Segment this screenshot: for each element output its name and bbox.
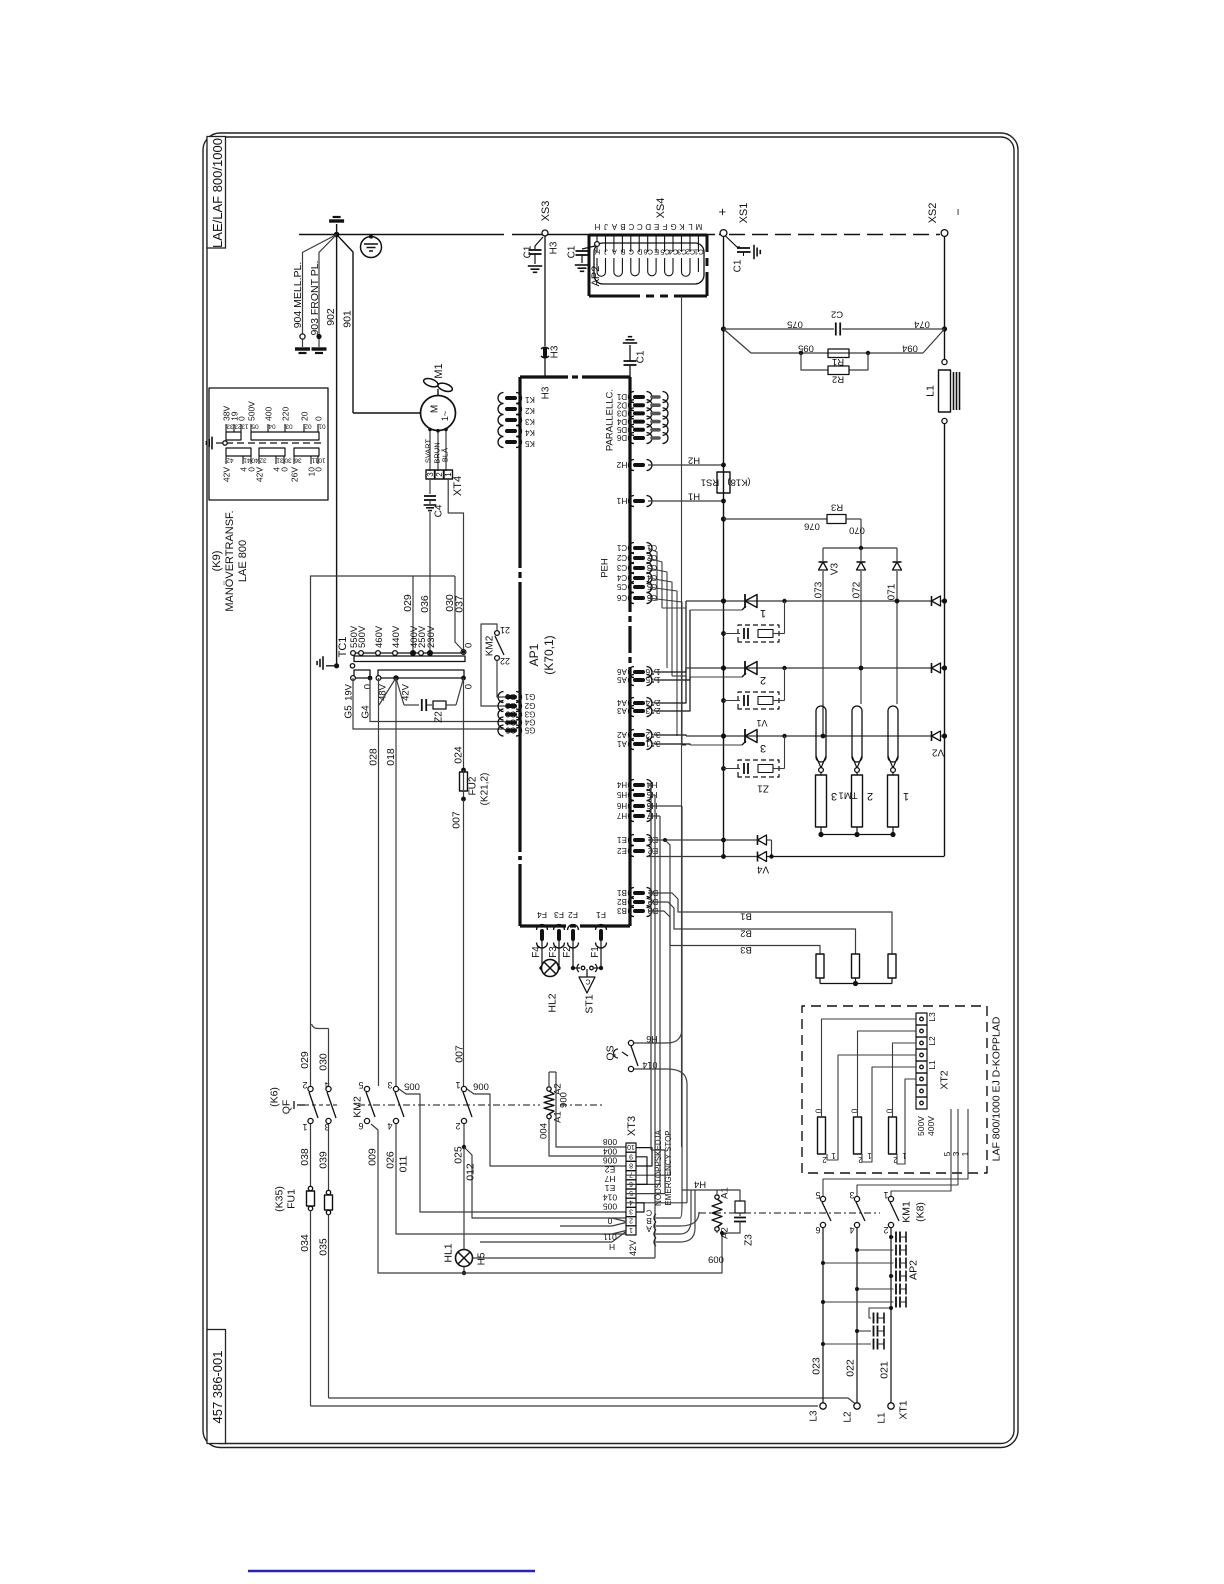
svg-text:02: 02 — [304, 423, 312, 430]
svg-text:HL2: HL2 — [547, 993, 559, 1012]
svg-text:904 MELL.PL.: 904 MELL.PL. — [292, 262, 304, 329]
svg-text:E: E — [654, 222, 659, 231]
svg-text:007: 007 — [451, 811, 463, 829]
svg-text:H7: H7 — [616, 811, 627, 820]
svg-text:C3: C3 — [646, 563, 657, 572]
fuse FU1 (K35) — [308, 1186, 312, 1190]
wire 035 — [328, 1214, 330, 1398]
connector H3 arcs — [543, 349, 547, 357]
motor leads SVART BRUN BLA — [429, 428, 431, 471]
svg-text:440V: 440V — [391, 625, 402, 648]
snubber row C2/075/074 — [721, 326, 726, 331]
svg-text:H7: H7 — [604, 1174, 615, 1184]
svg-text:C1: C1 — [733, 259, 744, 272]
svg-text:Z3: Z3 — [744, 1234, 755, 1246]
thyristor V1-3 — [744, 729, 746, 743]
capacitor bank lower three — [869, 1308, 891, 1318]
svg-text:26V: 26V — [290, 467, 300, 482]
svg-text:D4: D4 — [616, 417, 627, 426]
svg-text:(K6): (K6) — [269, 1087, 281, 1107]
svg-text:2: 2 — [867, 790, 873, 802]
wire 004 from A1 — [549, 1119, 626, 1156]
wire 026/011 from KM2 pole 3 — [396, 1124, 626, 1234]
svg-text:8: 8 — [629, 1162, 633, 1169]
svg-text:(K8): (K8) — [915, 1202, 927, 1222]
svg-text:0: 0 — [280, 467, 290, 472]
svg-text:004: 004 — [538, 1123, 549, 1139]
wires 5 3 1 from XT2 — [891, 1109, 951, 1196]
TC1 tap 500V — [359, 651, 364, 656]
svg-text:095: 095 — [798, 343, 814, 354]
svg-text:XT2: XT2 — [939, 1070, 951, 1089]
svg-text:902: 902 — [325, 308, 337, 326]
svg-text:5: 5 — [629, 1189, 633, 1196]
wire 030 branch hook — [312, 1024, 329, 1029]
svg-text:074: 074 — [914, 319, 930, 330]
pin D4 — [635, 420, 643, 424]
svg-text:42V: 42V — [222, 467, 232, 482]
svg-text:KM2: KM2 — [352, 1096, 364, 1118]
svg-text:1: 1 — [302, 1122, 307, 1132]
svg-text:H2: H2 — [688, 455, 700, 466]
svg-text:0: 0 — [362, 684, 373, 689]
feed wire to XT1 L2 — [329, 1398, 858, 1405]
svg-text:G5: G5 — [524, 726, 535, 735]
drawing frame inner border — [207, 137, 1014, 1444]
svg-text:009: 009 — [708, 1254, 724, 1265]
svg-text:C6: C6 — [643, 247, 653, 256]
svg-text:005: 005 — [404, 1081, 420, 1092]
svg-text:LAF 800/1000 EJ D-KOPPLAD: LAF 800/1000 EJ D-KOPPLAD — [991, 1016, 1003, 1161]
svg-text:42V: 42V — [255, 467, 265, 482]
svg-text:039: 039 — [318, 1151, 330, 1169]
thyristor V1-2 — [744, 661, 746, 675]
svg-text:071: 071 — [887, 583, 898, 600]
svg-text:1: 1 — [831, 1151, 836, 1160]
svg-text:C3: C3 — [616, 563, 627, 572]
chevron connectors A B C — [654, 1214, 656, 1222]
TC1 secondary winding small — [354, 670, 370, 678]
TC1 tap 250V — [419, 651, 424, 656]
breaker QF (K6) — [308, 1086, 313, 1091]
svg-text:008: 008 — [603, 1137, 617, 1147]
svg-text:M1: M1 — [433, 363, 445, 378]
svg-text:V2: V2 — [931, 747, 944, 758]
svg-text:H4: H4 — [694, 1179, 706, 1190]
svg-text:2: 2 — [883, 1225, 888, 1235]
XT2 windings — [818, 1117, 826, 1154]
svg-text:G1: G1 — [505, 692, 516, 701]
TM1 secondary windings — [816, 775, 827, 827]
pin C1 — [635, 546, 643, 550]
TM1 primary star — [820, 983, 892, 985]
svg-text:0: 0 — [314, 416, 324, 421]
svg-text:A: A — [611, 222, 617, 231]
wire M1 to 901 — [353, 412, 421, 414]
svg-text:Z2: Z2 — [434, 711, 445, 723]
pin H2 — [635, 463, 643, 467]
pin A5 — [635, 678, 643, 682]
svg-text:030: 030 — [318, 1053, 330, 1071]
svg-text:L3: L3 — [927, 1012, 937, 1022]
thyristor rail 3 — [686, 735, 945, 737]
svg-text:B2: B2 — [617, 897, 627, 906]
wire 008 row — [556, 1072, 626, 1147]
svg-text:C2: C2 — [686, 247, 696, 256]
wire 034 — [310, 1210, 312, 1406]
svg-text:31: 31 — [276, 457, 284, 464]
svg-text:1: 1 — [867, 1151, 872, 1160]
svg-text:C1: C1 — [567, 245, 578, 258]
negative bus upper — [944, 236, 946, 359]
svg-text:028: 028 — [368, 748, 380, 766]
svg-text:H3: H3 — [549, 241, 560, 254]
svg-text:20: 20 — [300, 411, 310, 421]
earth bar at node 901 — [336, 224, 338, 235]
K9 secondary winding C — [294, 448, 319, 456]
svg-text:05: 05 — [251, 423, 259, 430]
wire 028 from 48V — [378, 678, 380, 1086]
svg-text:XT3: XT3 — [626, 1116, 638, 1136]
svg-text:J: J — [604, 222, 608, 231]
B3 wire — [648, 911, 820, 954]
H pins wires down to rows — [648, 805, 682, 807]
svg-text:500V: 500V — [247, 401, 257, 421]
phase wires 073 072 071 — [822, 571, 824, 736]
wire 007 — [463, 800, 465, 1086]
capacitor C1 at AP1 top — [629, 366, 631, 377]
svg-text:B1: B1 — [617, 888, 627, 897]
svg-text:+: + — [715, 208, 730, 216]
svg-text:ST1: ST1 — [584, 994, 596, 1013]
svg-text:30: 30 — [284, 457, 292, 464]
terminal strip XT3 — [626, 1143, 636, 1152]
svg-text:SVART: SVART — [424, 438, 433, 463]
pin D1 — [635, 395, 643, 399]
blue footer line — [248, 1570, 535, 1573]
svg-text:42: 42 — [226, 457, 234, 464]
svg-text:F1: F1 — [596, 910, 606, 920]
svg-text:BLÅ: BLÅ — [441, 448, 450, 462]
svg-text:C6: C6 — [616, 593, 627, 602]
svg-text:XT1: XT1 — [898, 1400, 910, 1419]
svg-text:220: 220 — [281, 407, 291, 421]
K9 primary winding 1 — [226, 432, 241, 440]
svg-text:3: 3 — [426, 472, 435, 477]
svg-text:H: H — [595, 247, 600, 256]
svg-text:C3: C3 — [677, 247, 687, 256]
capacitor C1 at XS1 — [726, 236, 741, 247]
svg-text:M: M — [695, 222, 702, 231]
svg-text:094: 094 — [902, 343, 918, 354]
svg-text:F2: F2 — [568, 910, 578, 920]
svg-text:XS3: XS3 — [540, 201, 552, 222]
svg-text:J: J — [604, 247, 608, 256]
svg-text:C1: C1 — [616, 543, 627, 552]
contactor KM2 pole 1-2 — [461, 1086, 466, 1091]
pin H5 — [635, 793, 643, 797]
svg-text:C5: C5 — [660, 247, 670, 256]
svg-text:C2: C2 — [616, 553, 627, 562]
svg-text:XS2: XS2 — [927, 203, 939, 224]
svg-text:V4: V4 — [756, 864, 769, 875]
TC1 tap 0 primary — [461, 650, 466, 655]
rows E2 H7 E1 lines — [626, 1174, 655, 1176]
thyristor V1-1 — [744, 594, 746, 608]
svg-text:006: 006 — [603, 1156, 617, 1166]
capacitor C1 at XS3 — [535, 237, 543, 249]
TC1 core dash and ground — [334, 663, 339, 668]
svg-text:073: 073 — [814, 581, 825, 598]
TM1 connection tubes — [816, 706, 826, 762]
pin H3 into AP1 top — [544, 237, 546, 347]
wire H4 row — [682, 1189, 717, 1191]
contactor KM1 coil zigzag — [712, 1199, 722, 1227]
svg-text:0: 0 — [463, 684, 474, 689]
svg-text:021: 021 — [879, 1361, 891, 1379]
pin H7 — [635, 814, 643, 818]
svg-text:006: 006 — [473, 1081, 489, 1092]
pin C6 — [635, 596, 643, 600]
motor M1 circle — [421, 396, 456, 431]
svg-text:04: 04 — [268, 423, 276, 430]
pin D2 — [635, 403, 643, 407]
svg-text:G5: G5 — [505, 726, 516, 735]
rows 012 0 011 H into XT3 — [612, 1218, 626, 1222]
gate wire bundle from PEH — [648, 548, 657, 601]
wire 21 to G2 — [481, 624, 506, 706]
svg-text:36: 36 — [294, 457, 302, 464]
svg-text:E2: E2 — [605, 1165, 616, 1175]
svg-text:457 386-001: 457 386-001 — [210, 1350, 225, 1423]
svg-text:A5: A5 — [617, 675, 627, 684]
title box LAE/LAF 800/1000 — [207, 137, 226, 249]
feed wire to XT1 L3 — [311, 1405, 819, 1407]
gate wire — [690, 744, 742, 746]
pin H4 — [635, 783, 643, 787]
svg-text:F1: F1 — [590, 946, 601, 958]
terminal strip XT4 — [426, 470, 435, 479]
svg-text:H5: H5 — [616, 790, 627, 799]
capacitor bank AP2 — [891, 1236, 894, 1238]
svg-text:42V: 42V — [628, 1240, 638, 1256]
positive bus — [723, 236, 725, 856]
svg-text:(K21,2): (K21,2) — [480, 773, 491, 806]
pin A1 — [635, 742, 643, 746]
svg-text:F4: F4 — [537, 910, 547, 920]
svg-text:K1: K1 — [525, 395, 535, 404]
svg-text:40: 40 — [251, 457, 259, 464]
svg-text:011: 011 — [603, 1232, 617, 1242]
svg-text:TM1: TM1 — [839, 790, 858, 801]
TC1 tap 230V — [428, 651, 433, 656]
svg-text:11: 11 — [311, 457, 318, 464]
svg-text:C2: C2 — [831, 309, 843, 320]
contactor KM2 pole 3-4 — [393, 1086, 398, 1091]
B2 wire — [648, 902, 856, 954]
svg-text:FU2: FU2 — [468, 776, 479, 795]
wire 903 — [319, 235, 337, 335]
svg-text:32: 32 — [259, 457, 267, 464]
lamp HL2 — [541, 940, 543, 968]
svg-text:01: 01 — [318, 423, 326, 430]
svg-text:B1: B1 — [740, 911, 752, 922]
svg-text:K5: K5 — [525, 439, 535, 448]
svg-text:C: C — [628, 247, 634, 256]
svg-text:025: 025 — [453, 1146, 465, 1164]
svg-text:3: 3 — [387, 1080, 392, 1090]
svg-text:C4: C4 — [669, 247, 679, 256]
wire 036 motor feed — [429, 512, 431, 653]
svg-text:D2: D2 — [616, 400, 627, 409]
wire 005 jog from KM2 — [399, 1089, 626, 1212]
svg-text:4: 4 — [629, 1198, 633, 1205]
svg-text:G3: G3 — [505, 710, 516, 719]
014 wire from QS — [634, 1068, 668, 1070]
gate stubs — [662, 607, 686, 609]
svg-text:C: C — [628, 222, 634, 231]
diode V2-1 — [932, 596, 941, 606]
B1 wire — [648, 893, 892, 954]
svg-text:RS1: RS1 — [701, 477, 719, 488]
TM1 star join — [820, 827, 822, 833]
svg-text:1: 1 — [903, 790, 909, 802]
svg-text:0: 0 — [314, 467, 324, 472]
svg-text:F3: F3 — [548, 946, 559, 958]
svg-text:C: C — [585, 978, 590, 985]
manoeuvre transformer box (K9) — [209, 388, 328, 500]
svg-text:A: A — [646, 1224, 652, 1234]
svg-text:R2: R2 — [832, 374, 844, 385]
TC1 secondary taps — [351, 676, 356, 681]
right bundle verticals — [681, 806, 683, 1204]
XT3 jumper brackets — [636, 1148, 652, 1166]
svg-text:A3: A3 — [617, 706, 627, 715]
svg-text:F2: F2 — [562, 946, 573, 958]
svg-text:070: 070 — [849, 525, 865, 536]
svg-text:LAE/LAF 800/1000: LAE/LAF 800/1000 — [210, 138, 225, 248]
wire 902 — [336, 235, 338, 666]
svg-text:C4: C4 — [616, 573, 627, 582]
E1 wire and diode V4a — [648, 839, 757, 841]
diodes V3 — [822, 548, 824, 561]
wire 009 — [371, 1124, 722, 1273]
svg-text:E1: E1 — [605, 1183, 616, 1193]
svg-text:1: 1 — [902, 1151, 907, 1160]
resistor R3 and wires 076/070 — [721, 516, 726, 521]
svg-text:011: 011 — [398, 1155, 410, 1172]
contactor KM2 auxiliary contact 21-22 — [495, 631, 500, 636]
wire A2 up — [548, 1072, 550, 1087]
varistor Z3 — [716, 1190, 718, 1196]
svg-text:A: A — [612, 247, 617, 256]
svg-text:C: C — [637, 222, 643, 231]
pin A4 — [635, 701, 643, 705]
pin C5 — [635, 585, 643, 589]
svg-text:QS: QS — [605, 1045, 617, 1060]
main earth bus wire — [299, 234, 504, 236]
svg-text:3: 3 — [849, 1190, 854, 1200]
svg-text:41: 41 — [243, 457, 251, 464]
svg-text:H6: H6 — [646, 1034, 658, 1044]
svg-text:H1: H1 — [616, 496, 627, 506]
transformer TC1 primary winding — [354, 656, 465, 662]
svg-text:009: 009 — [367, 1148, 379, 1166]
svg-text:H5: H5 — [477, 1252, 488, 1265]
E pin branches — [663, 838, 667, 842]
svg-text:C2: C2 — [646, 553, 657, 562]
svg-text:AP2: AP2 — [908, 1260, 920, 1280]
svg-text:H4: H4 — [646, 780, 657, 790]
svg-text:L1: L1 — [877, 1412, 888, 1424]
K9 primary taps — [225, 424, 227, 432]
svg-text:10: 10 — [318, 457, 326, 464]
svg-text:TC1: TC1 — [337, 637, 349, 658]
svg-text:1: 1 — [883, 1190, 888, 1200]
svg-text:035: 035 — [318, 1238, 330, 1256]
svg-text:(K9): (K9) — [211, 551, 223, 572]
gate wire — [690, 609, 742, 611]
svg-text:0: 0 — [237, 416, 247, 421]
lamp HL1 — [456, 1250, 473, 1267]
choke L1 — [942, 359, 947, 364]
svg-text:G1: G1 — [524, 692, 535, 701]
svg-text:AP1: AP1 — [527, 643, 541, 666]
K9 ground — [223, 441, 227, 445]
svg-text:R3: R3 — [831, 502, 843, 513]
svg-text:029: 029 — [402, 594, 414, 612]
svg-text:E1: E1 — [617, 835, 627, 844]
A pin wires to rails — [655, 601, 686, 672]
svg-text:−: − — [951, 208, 965, 215]
svg-text:L3: L3 — [809, 1410, 820, 1422]
terminal strip XT2 — [916, 1013, 927, 1025]
svg-text:(K18): (K18) — [727, 477, 750, 488]
wire 025/012 from KM2 pole 1 — [463, 1124, 465, 1249]
KM2 linkage — [358, 1104, 540, 1106]
svg-text:2: 2 — [760, 674, 766, 686]
svg-text:10: 10 — [627, 1143, 635, 1150]
svg-text:2: 2 — [302, 1080, 307, 1090]
wire 037 from XT4-1 — [448, 479, 463, 651]
svg-text:H3: H3 — [550, 345, 561, 358]
TC1 tap 400V — [411, 651, 416, 656]
svg-text:H3: H3 — [541, 386, 552, 399]
svg-text:F4: F4 — [531, 946, 542, 958]
svg-text:0: 0 — [607, 1216, 612, 1226]
wire 030 corner into TC1 0 tap — [455, 576, 464, 651]
pin C3 — [635, 566, 643, 570]
svg-text:V1: V1 — [756, 718, 767, 728]
TC1 tap 440V — [393, 651, 398, 656]
svg-text:KM1: KM1 — [901, 1201, 913, 1223]
svg-text:A1: A1 — [719, 1187, 730, 1199]
svg-text:G2: G2 — [505, 701, 516, 710]
svg-text:A2: A2 — [617, 730, 627, 739]
XT2 internal wiring — [822, 1019, 917, 1117]
svg-text:A1: A1 — [552, 1111, 563, 1123]
diode V2-2 — [932, 663, 941, 673]
M1 fan symbol — [437, 389, 439, 396]
KM1 linkage — [699, 1212, 880, 1214]
wire from AP2 pin to lower rail — [681, 296, 683, 1147]
K9 secondary winding A — [226, 448, 251, 456]
svg-text:B2: B2 — [740, 928, 752, 939]
svg-text:21: 21 — [500, 625, 510, 635]
svg-text:G3: G3 — [524, 710, 535, 719]
svg-text:E: E — [654, 247, 659, 256]
resistor row R1 R2 095/094 — [724, 329, 802, 353]
